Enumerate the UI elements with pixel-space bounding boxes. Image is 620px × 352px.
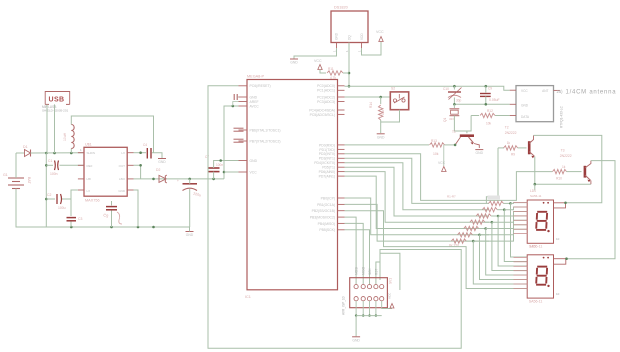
ground sym T1 emitter <box>475 149 483 151</box>
svg-text:PD5(T1): PD5(T1) <box>322 166 335 170</box>
svg-text:LX: LX <box>87 189 91 193</box>
display LD1 digit 8 <box>537 211 547 213</box>
capacitor C3 <box>70 199 72 216</box>
svg-text:4.7k: 4.7k <box>330 76 336 80</box>
svg-text:R12: R12 <box>487 109 493 113</box>
wire VCC pin branch <box>224 171 239 173</box>
MCU right pin stubs group PC <box>338 85 345 87</box>
resistor R10 <box>553 169 567 173</box>
switch S2 box <box>390 92 408 110</box>
wire T3 feed from bundle <box>345 154 553 201</box>
svg-text:SA56-11: SA56-11 <box>530 194 542 198</box>
svg-text:1/4CM antenna: 1/4CM antenna <box>566 90 617 96</box>
svg-text:VCC: VCC <box>388 292 392 299</box>
svg-text:10k: 10k <box>486 122 492 126</box>
capacitor C2 100u polarized <box>46 198 55 200</box>
wire MCU to S2 <box>345 96 391 98</box>
wires resistor dots to display1 pins <box>511 202 528 205</box>
ISP ground tie <box>355 301 357 316</box>
svg-text:PD0(RXD): PD0(RXD) <box>319 143 335 147</box>
svg-text:VCC: VCC <box>250 170 258 174</box>
svg-text:OUT: OUT <box>119 164 126 168</box>
svg-text:LBI: LBI <box>87 177 92 181</box>
wire DS1820 VDD to VCC <box>362 42 382 56</box>
svg-text:433: 433 <box>449 117 454 121</box>
svg-text:PC0(ADC0): PC0(ADC0) <box>317 84 335 88</box>
svg-text:S2: S2 <box>391 87 395 91</box>
transistor T2 <box>528 141 531 154</box>
svg-text:PD3(INT1): PD3(INT1) <box>319 157 335 161</box>
svg-text:10uH: 10uH <box>63 132 67 141</box>
resistor R11 <box>327 71 343 75</box>
svg-text:U$1: U$1 <box>85 143 92 147</box>
resistor R9 <box>504 146 518 150</box>
wire C4 to GND stub <box>152 153 162 158</box>
wire T2 emitter rail <box>535 157 591 185</box>
svg-text:LD1: LD1 <box>530 189 536 193</box>
svg-text:PD7(AIN1): PD7(AIN1) <box>319 175 335 179</box>
wires resistor dots down to display2 pins <box>511 203 528 257</box>
trimmer capacitor C10 <box>453 86 455 89</box>
RF module U$2 box <box>516 86 554 122</box>
svg-text:MEGA8-P: MEGA8-P <box>247 75 265 79</box>
diode D1 <box>16 152 24 154</box>
wire PB2 to display2 dp <box>345 211 528 289</box>
wire LX2/GND pin down <box>134 190 139 227</box>
wire L1 top to cap node <box>71 116 153 153</box>
svg-text:SCK: SCK <box>368 268 372 275</box>
svg-text:SV1: SV1 <box>389 278 393 284</box>
svg-text:100u: 100u <box>58 206 66 210</box>
svg-text:10: 10 <box>556 237 560 241</box>
wire S2 right to resistor bottom <box>381 110 400 122</box>
svg-text:C1: C1 <box>48 159 52 163</box>
wires MCU PD to resistor rows <box>345 158 490 203</box>
capacitor C9 <box>485 86 487 92</box>
wire OUT pin drop <box>134 165 141 179</box>
svg-text:C10: C10 <box>443 87 449 91</box>
svg-text:30p: 30p <box>456 99 462 103</box>
capacitor C4 bypass right of MAX756 <box>134 152 147 154</box>
display LD1 right pins <box>554 202 566 204</box>
resistor R13 with VCC pullup <box>345 144 430 146</box>
svg-text:MISO: MISO <box>362 266 366 275</box>
svg-text:MOSI: MOSI <box>354 267 358 275</box>
svg-text:GND: GND <box>377 135 385 139</box>
supply VCC at DS1820 <box>379 37 383 42</box>
svg-text:PD1(TXD): PD1(TXD) <box>319 148 335 152</box>
crystal Q1 <box>453 104 455 108</box>
wire 10k DATA feed vertical <box>467 116 471 132</box>
svg-text:GND: GND <box>352 338 360 342</box>
svg-text:R14: R14 <box>369 102 373 108</box>
svg-text:PB3(MOSI/OC2): PB3(MOSI/OC2) <box>310 216 335 220</box>
battery G1 <box>8 177 24 179</box>
svg-text:C3: C3 <box>78 217 82 221</box>
ground sym ISP <box>352 336 360 338</box>
svg-text:PB0(ICP): PB0(ICP) <box>321 196 335 200</box>
wire DS1820 GND pin <box>294 48 337 59</box>
svg-text:PD4(XCK/T0): PD4(XCK/T0) <box>314 161 335 165</box>
svg-text:GND: GND <box>521 104 529 108</box>
svg-text:1k: 1k <box>562 165 566 169</box>
ground sym S2 <box>377 133 385 135</box>
svg-text:T3: T3 <box>561 149 565 153</box>
capacitor C6 220u polarized <box>183 183 198 185</box>
diode D2 on VCC rail <box>159 175 166 182</box>
ISP header pin circles <box>354 285 358 289</box>
ground sym bottom rail <box>186 231 194 233</box>
svg-text:GND: GND <box>476 151 484 155</box>
svg-text:R11: R11 <box>328 67 334 71</box>
svg-text:LD2: LD2 <box>530 245 536 249</box>
svg-text:T2: T2 <box>505 126 509 130</box>
svg-text:+: + <box>177 179 179 183</box>
svg-text:PD2(INT0): PD2(INT0) <box>319 152 335 156</box>
svg-text:R1-R7: R1-R7 <box>447 195 456 199</box>
ISP VCC pin <box>382 301 392 309</box>
svg-text:LBO: LBO <box>119 177 126 181</box>
RF module pin stubs <box>510 89 516 91</box>
svg-text:C2: C2 <box>47 193 51 197</box>
VCC rail y179 <box>134 178 225 180</box>
IC1 MEGA8-P box <box>247 80 338 290</box>
svg-text:VDD: VDD <box>360 33 364 40</box>
display LD2 digit 8 <box>537 266 547 268</box>
svg-text:PB6(XTAL1/TOSC1): PB6(XTAL1/TOSC1) <box>250 128 281 132</box>
svg-text:GND: GND <box>250 159 258 163</box>
display LD1 left pin stubs <box>514 202 528 204</box>
svg-text:C7: C7 <box>205 155 209 159</box>
svg-text:SA56-11: SA56-11 <box>529 299 543 303</box>
svg-text:100n: 100n <box>216 163 223 167</box>
svg-text:25): 25) <box>557 89 564 94</box>
wire R9 feed from staircase <box>498 147 504 149</box>
display LD2 left pin stubs <box>514 256 528 258</box>
wire AVCC branch <box>224 106 239 179</box>
wire USB pin 2 <box>54 104 56 153</box>
svg-text:PC6(/RESET): PC6(/RESET) <box>250 84 271 88</box>
svg-text:AREF: AREF <box>250 100 259 104</box>
svg-text:GND: GND <box>250 95 258 99</box>
svg-text:T1: T1 <box>452 130 456 134</box>
svg-text:PB4(MISO): PB4(MISO) <box>318 222 335 226</box>
svg-text:Q1: Q1 <box>443 118 447 122</box>
svg-text:D1: D1 <box>23 145 28 149</box>
wires MCU PB3-PB5 to ISP <box>345 217 357 284</box>
capacitor C7 100n near MCU <box>208 167 220 169</box>
wire crystal top rail y86 <box>345 86 510 90</box>
svg-text:PC2(ADC2): PC2(ADC2) <box>317 95 335 99</box>
svg-text:GND: GND <box>158 160 166 164</box>
wire rail y104 <box>454 103 509 105</box>
svg-text:BAT: BAT <box>27 177 31 185</box>
svg-text:D2: D2 <box>156 168 160 172</box>
IC U$1 MAX756 box <box>84 147 127 196</box>
svg-text:GND: GND <box>335 32 339 40</box>
wire staircase decor near T2 feed <box>486 148 498 204</box>
capacitor C1 100n <box>46 164 53 166</box>
svg-text:100n: 100n <box>50 172 58 176</box>
svg-text:LX: LX <box>121 151 125 155</box>
svg-text:VCC: VCC <box>438 161 446 165</box>
svg-text:R10: R10 <box>556 177 562 181</box>
MCU right pin stubs group PB <box>338 197 345 199</box>
resistor R14 vertical <box>380 97 382 104</box>
svg-text:G1: G1 <box>3 173 8 177</box>
svg-text:10k: 10k <box>381 109 385 115</box>
svg-text:RST: RST <box>375 269 379 275</box>
ground sym near C4 <box>158 158 166 160</box>
svg-text:VCC: VCC <box>376 30 384 34</box>
ground rail bottom left <box>16 226 190 228</box>
svg-text:0.05uF: 0.05uF <box>489 98 500 102</box>
supply VCC at R11 <box>318 65 322 70</box>
svg-text:SHIELD-32005-201: SHIELD-32005-201 <box>42 109 69 113</box>
supply VCC pullup arrow <box>443 145 445 166</box>
svg-text:PB1(OC1A): PB1(OC1A) <box>317 203 335 207</box>
wire T2 collector to display1 common <box>534 135 602 202</box>
svg-text:DS1820: DS1820 <box>334 6 348 10</box>
svg-text:RTFQ1-433-LC: RTFQ1-433-LC <box>560 105 564 128</box>
svg-text:SHDN: SHDN <box>87 151 96 155</box>
ground sym DS1820 <box>290 58 298 60</box>
svg-text:PB7(XTAL2/TOSC2): PB7(XTAL2/TOSC2) <box>250 139 281 143</box>
wire T3 collector to display2 common <box>567 161 616 259</box>
wire rail D1 to MAX756 <box>31 152 85 154</box>
svg-text:VCC: VCC <box>314 59 322 63</box>
wire DQ down <box>348 43 350 87</box>
svg-text:PC1(ADC1): PC1(ADC1) <box>317 89 335 93</box>
IC2 DS1820 box <box>331 11 368 43</box>
MAX756 left pins <box>78 152 84 154</box>
svg-text:2N2222: 2N2222 <box>505 131 517 135</box>
wire LBI pin to C2 node <box>71 190 78 199</box>
svg-text:AVR_ISP_10: AVR_ISP_10 <box>342 296 346 315</box>
MCU left pin stubs <box>239 85 248 87</box>
MCU right pin stubs group PD <box>338 144 345 146</box>
svg-text:R13: R13 <box>431 139 437 143</box>
wire battery bottom to ground rail <box>16 189 46 228</box>
USB connector X1 <box>45 92 69 105</box>
wire battery top to rail <box>15 153 17 178</box>
svg-text:PC3(ADC3): PC3(ADC3) <box>317 100 335 104</box>
svg-text:IC1: IC1 <box>245 295 251 299</box>
svg-text:2N2222: 2N2222 <box>560 154 572 158</box>
svg-text:MAX756: MAX756 <box>85 199 100 203</box>
display LD2 right pins <box>554 258 567 260</box>
svg-text:GND: GND <box>118 189 126 193</box>
svg-text:AVCC: AVCC <box>250 104 260 108</box>
svg-text:PC4(ADC4/SDA): PC4(ADC4/SDA) <box>309 108 335 112</box>
svg-text:R9: R9 <box>511 153 515 157</box>
svg-text:PD6(AIN0): PD6(AIN0) <box>319 170 335 174</box>
capacitor C8 small at AREF <box>233 94 235 100</box>
svg-text:DATA: DATA <box>521 115 530 119</box>
wire vertical left cap branch <box>45 153 47 227</box>
wire USB pin 1 <box>46 104 48 153</box>
svg-text:PB5(SCK): PB5(SCK) <box>319 228 335 232</box>
inductor L1 <box>70 149 72 154</box>
svg-text:1k: 1k <box>507 141 511 145</box>
svg-text:C4: C4 <box>143 143 147 147</box>
wire RESET into ISP <box>380 250 400 291</box>
svg-text:VCC: VCC <box>521 89 528 93</box>
node rail-left junctions <box>45 152 48 155</box>
resistors R1-R7 network <box>489 201 504 205</box>
display LD2 box <box>527 255 553 298</box>
svg-text:10k: 10k <box>433 152 439 156</box>
svg-text:GND: GND <box>186 233 194 237</box>
svg-text:PB2(SS/OC1B): PB2(SS/OC1B) <box>312 209 335 213</box>
svg-text:GND: GND <box>290 61 298 65</box>
svg-text:C9: C9 <box>488 87 492 91</box>
svg-text:DQ: DQ <box>348 35 352 40</box>
MAX756 right pins <box>127 152 133 154</box>
display LD1 box <box>527 200 553 243</box>
wire RESET loop <box>208 86 461 349</box>
svg-text:PC5(ADC5/SCL): PC5(ADC5/SCL) <box>310 113 335 117</box>
wire AVCC to AREF verticals <box>233 102 239 107</box>
ISP header SV1 box <box>350 278 388 308</box>
crystal marks at XTAL pins <box>234 127 244 129</box>
resistor R12 10k to DATA <box>471 115 479 117</box>
svg-text:10: 10 <box>556 292 560 296</box>
transistor T3 <box>584 166 587 178</box>
transistor T1 <box>460 134 474 137</box>
capacitor C5 <box>111 201 113 206</box>
svg-text:USB: USB <box>49 97 65 104</box>
svg-text:ANT: ANT <box>542 89 548 93</box>
DS1820 pin stubs <box>336 43 338 49</box>
svg-text:REF: REF <box>87 164 93 168</box>
